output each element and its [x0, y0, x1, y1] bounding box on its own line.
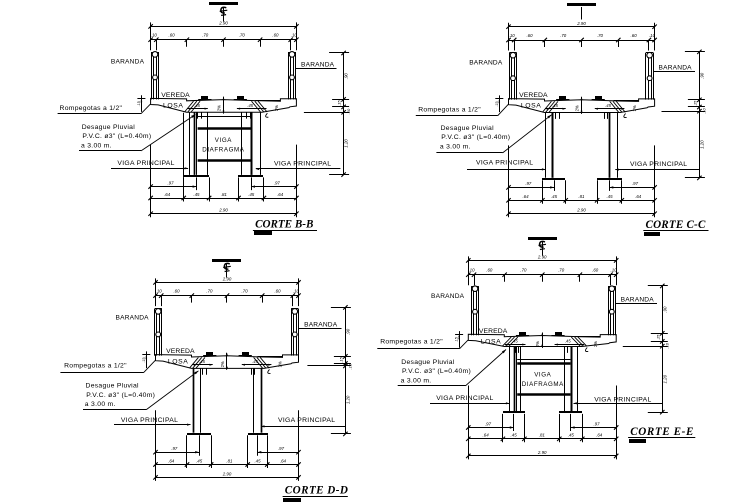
section B-B viga principal left web centerline — [194, 112, 196, 175]
svg-text:.64: .64 — [596, 433, 603, 438]
svg-text:VIGA PRINCIPAL: VIGA PRINCIPAL — [278, 417, 335, 424]
svg-text:a 3.00 m.: a 3.00 m. — [85, 401, 116, 408]
svg-text:Desague Pluvial: Desague Pluvial — [86, 383, 140, 390]
section E-E bottom overall dimension 2.90 — [468, 455, 616, 457]
section E-E bottom extension lines — [468, 386, 470, 460]
svg-text:2.90: 2.90 — [222, 277, 232, 282]
section D-D chain tick at deck top — [334, 356, 351, 358]
svg-text:2%: 2% — [216, 105, 221, 111]
section E-E right railing top rail circle — [609, 286, 615, 292]
section C-C drain pipe hatch right — [616, 101, 625, 112]
section D-D title scale bar — [283, 498, 301, 502]
section B-B right railing mid rail circle — [290, 75, 295, 80]
section D-D left railing mid rail circle — [156, 332, 161, 337]
section E-E left railing mid rail circle — [473, 309, 478, 314]
svg-text:.70: .70 — [202, 33, 209, 38]
svg-text:.15: .15 — [338, 356, 343, 362]
svg-text:BARANDA: BARANDA — [621, 297, 655, 304]
section B-B bottom extension lines — [150, 145, 152, 218]
section D-D bottom overall dimension 2.90 — [156, 477, 299, 479]
section E-E centerline bar — [528, 237, 557, 240]
section C-C viga principal right bottom flange — [597, 178, 622, 180]
section B-B chain tick at deck top — [332, 99, 349, 101]
section E-E drain cap right — [555, 332, 562, 335]
section B-B left railing top rail circle — [152, 52, 158, 58]
section D-D interior dimension .45 left — [192, 364, 213, 366]
svg-text:.64: .64 — [483, 433, 490, 438]
section E-E viga principal right web centerline — [571, 347, 573, 412]
section B-B centerline bar — [209, 2, 238, 5]
svg-text:.45: .45 — [254, 458, 261, 463]
svg-text:.10: .10 — [468, 268, 475, 273]
section B-B viga principal left bottom flange — [184, 175, 209, 177]
section C-C chain tick at deck top — [688, 99, 705, 101]
svg-text:.60: .60 — [274, 289, 281, 294]
svg-text:.97: .97 — [485, 421, 492, 426]
svg-text:.60: .60 — [592, 268, 599, 273]
section B-B bottom overall dimension 2.90 — [151, 213, 297, 215]
svg-text:.15: .15 — [655, 334, 660, 340]
section C-C dimension extension lines — [508, 23, 510, 51]
svg-text:.97: .97 — [274, 180, 281, 185]
svg-text:LOSA: LOSA — [481, 338, 502, 345]
svg-text:CORTE B-B: CORTE B-B — [255, 218, 313, 230]
svg-text:VIGA PRINCIPAL: VIGA PRINCIPAL — [594, 397, 651, 404]
section B-B chain tick top — [329, 52, 349, 54]
svg-text:Desague Pluvial: Desague Pluvial — [82, 124, 136, 131]
section C-C drain spout right — [604, 113, 606, 119]
svg-text:.45: .45 — [193, 192, 200, 197]
svg-text:.10: .10 — [346, 108, 351, 114]
svg-text:CORTE C-C: CORTE C-C — [646, 219, 706, 231]
svg-text:.97: .97 — [593, 421, 600, 426]
section B-B viga diafragma box — [198, 127, 252, 130]
section B-B chain tick at deck bottom — [304, 112, 349, 114]
section D-D bottom extension lines — [155, 410, 157, 481]
section C-C chain tick at deck bottom — [662, 111, 705, 113]
section E-E chain tick top — [648, 285, 668, 287]
svg-text:a 3.00 m.: a 3.00 m. — [401, 377, 432, 384]
section E-E drain pipe hatch right — [578, 337, 587, 346]
svg-text:.15: .15 — [137, 101, 141, 106]
section B-B viga principal left web — [189, 112, 191, 175]
svg-text:DIAFRAGMA: DIAFRAGMA — [202, 146, 244, 153]
svg-text:.45: .45 — [568, 433, 575, 438]
svg-text:.64: .64 — [522, 194, 529, 199]
svg-text:.45: .45 — [248, 192, 255, 197]
section E-E centerline CL symbol — [542, 241, 544, 256]
svg-text:1.20: 1.20 — [699, 140, 704, 149]
svg-text:.70: .70 — [558, 268, 565, 273]
section E-E viga principal left web centerline — [514, 347, 516, 412]
section B-B deck slab outline (losa + vereda) — [151, 98, 297, 112]
section B-B drain cap left — [201, 96, 208, 99]
section B-B right railing top rail circle — [289, 52, 295, 58]
section C-C dimension row .97 right — [610, 187, 655, 189]
svg-text:2.90: 2.90 — [537, 450, 547, 455]
section B-B viga diafragma top edge line — [198, 116, 252, 118]
section D-D drain cap left — [206, 352, 213, 355]
svg-text:P.V.C. ø3" (L=0.40m): P.V.C. ø3" (L=0.40m) — [441, 134, 510, 141]
svg-text:BARANDA: BARANDA — [301, 62, 335, 69]
section E-E viga principal right bottom flange — [559, 411, 582, 413]
section D-D viga principal right bottom flange — [248, 433, 268, 435]
section E-E right dimension chain line — [662, 286, 664, 412]
svg-text:a 3.00 m.: a 3.00 m. — [440, 143, 471, 150]
section B-B drain cap right — [237, 96, 244, 99]
section C-C left railing post — [509, 53, 511, 100]
section D-D viga principal left web — [193, 368, 195, 432]
svg-text:.70: .70 — [242, 289, 249, 294]
svg-text:Rompegotas a 1/2": Rompegotas a 1/2" — [380, 339, 443, 346]
section B-B left railing post — [151, 52, 153, 99]
svg-text:.45: .45 — [606, 194, 613, 199]
svg-text:2%: 2% — [593, 341, 598, 347]
svg-text:2%: 2% — [278, 361, 283, 367]
section B-B top dimension row .10/.60/.70/.70/.60/.10 — [151, 39, 297, 41]
section D-D left railing top rail circle — [155, 309, 161, 315]
section D-D viga principal right web — [253, 368, 255, 432]
section B-B right dimension chain line — [343, 53, 345, 175]
svg-text:Rompegotas a 1/2": Rompegotas a 1/2" — [418, 107, 481, 114]
svg-text:VIGA PRINCIPAL: VIGA PRINCIPAL — [476, 160, 533, 167]
svg-text:VEREDA: VEREDA — [166, 348, 195, 355]
section D-D drain pipe hatch left — [189, 357, 198, 368]
svg-text:.90: .90 — [699, 72, 704, 79]
section C-C centerline tick — [581, 7, 583, 20]
section C-C viga principal left bottom flange — [542, 178, 565, 180]
section E-E chain tick at deck bottom — [623, 346, 668, 348]
section B-B dimension row .97 left — [151, 186, 197, 188]
svg-text:2.90: 2.90 — [576, 21, 586, 26]
section D-D drain cap right — [242, 352, 249, 355]
svg-text:.15: .15 — [692, 100, 697, 106]
svg-text:.90: .90 — [345, 328, 350, 335]
section D-D drain spout right — [251, 368, 253, 374]
svg-text:P.V.C. ø3" (L=0.40m): P.V.C. ø3" (L=0.40m) — [402, 368, 471, 375]
section E-E viga principal left web — [509, 347, 511, 412]
section C-C dimension row .97 left — [509, 187, 555, 189]
section D-D centerline bar — [212, 259, 241, 262]
section C-C right railing post — [645, 53, 647, 100]
section C-C chain tick bottom — [685, 177, 705, 179]
svg-text:.70: .70 — [597, 33, 604, 38]
section B-B dimension extension lines — [150, 22, 152, 50]
svg-text:.64: .64 — [280, 458, 287, 463]
svg-text:LOSA: LOSA — [521, 103, 542, 110]
section C-C curb height dim .15 left — [499, 95, 501, 112]
svg-text:.97: .97 — [278, 446, 285, 451]
svg-text:VEREDA: VEREDA — [161, 92, 190, 99]
svg-text:.60: .60 — [526, 33, 533, 38]
section E-E right vereda hidden edge — [575, 336, 600, 338]
svg-text:.10: .10 — [348, 363, 353, 369]
svg-text:2%: 2% — [632, 105, 637, 111]
svg-text:2.90: 2.90 — [218, 21, 228, 26]
section C-C right railing mid rail circle — [647, 76, 652, 81]
section C-C left railing mid rail circle — [511, 76, 516, 81]
svg-text:VEREDA: VEREDA — [519, 92, 548, 99]
section E-E title scale bar — [629, 439, 646, 443]
section D-D right dimension chain line — [345, 307, 347, 434]
section B-B drain pipe hatch right — [258, 101, 267, 112]
svg-text:.81: .81 — [578, 194, 585, 199]
section E-E dimension extension lines — [468, 256, 470, 285]
section B-B title scale bar — [254, 231, 272, 235]
svg-text:.10: .10 — [665, 342, 670, 348]
svg-text:.60: .60 — [169, 33, 176, 38]
svg-text:.70: .70 — [560, 33, 567, 38]
section E-E interior dimension .45 left — [505, 344, 526, 346]
svg-text:DIAFRAGMA: DIAFRAGMA — [522, 381, 564, 388]
section E-E chain tick bottom — [648, 412, 668, 414]
section D-D dimension row .64/.45/.81/.45/.64 — [156, 464, 299, 466]
svg-text:.10: .10 — [702, 108, 707, 114]
section C-C drain cap right — [595, 96, 602, 99]
svg-text:1.20: 1.20 — [662, 374, 667, 383]
section C-C centerline bar — [567, 3, 596, 6]
section E-E curb height dim .15 left — [459, 331, 461, 348]
svg-text:.64: .64 — [277, 192, 284, 197]
svg-text:.45: .45 — [605, 103, 611, 108]
svg-text:.45: .45 — [196, 458, 203, 463]
section B-B deck centerline with arrows — [223, 97, 225, 114]
section C-C bottom overall dimension 2.90 — [509, 213, 655, 215]
svg-text:2.90: 2.90 — [218, 208, 228, 213]
svg-text:.97: .97 — [171, 446, 178, 451]
section E-E right railing mid rail circle — [609, 309, 614, 314]
svg-text:.10: .10 — [156, 289, 163, 294]
section E-E left railing top rail circle — [472, 286, 478, 292]
svg-text:.10: .10 — [509, 33, 516, 38]
svg-text:BARANDA: BARANDA — [469, 60, 503, 67]
section D-D deck centerline with arrows — [226, 353, 228, 370]
section E-E top dimension row .10/.60/.70/.70/.60/.10 — [468, 274, 616, 276]
section E-E interior dimension .45 right — [555, 344, 585, 346]
svg-text:.64: .64 — [164, 192, 171, 197]
section B-B drain spout right — [246, 112, 248, 118]
svg-text:VEREDA: VEREDA — [479, 328, 508, 335]
svg-text:a 3.00 m.: a 3.00 m. — [81, 142, 112, 149]
section E-E viga principal right web — [564, 347, 566, 412]
section C-C drain spout left — [555, 113, 557, 119]
svg-text:.15: .15 — [495, 101, 499, 106]
section D-D dimension row .97 right — [258, 452, 299, 454]
section C-C viga principal right web — [609, 113, 611, 178]
section C-C right vereda hidden edge — [614, 100, 639, 102]
section C-C top dimension row .10/.60/.70/.70/.60/.10 — [509, 40, 655, 42]
svg-text:LOSA: LOSA — [168, 359, 189, 366]
section C-C drain pipe hatch left — [542, 101, 551, 112]
svg-text:Rompegotas a 1/2": Rompegotas a 1/2" — [64, 362, 127, 369]
svg-text:LOSA: LOSA — [163, 102, 184, 109]
svg-text:P.V.C. ø3" (L=0.40m): P.V.C. ø3" (L=0.40m) — [86, 392, 155, 399]
section B-B viga principal right bottom flange — [238, 175, 263, 177]
section C-C deck centerline with arrows — [581, 97, 583, 114]
section D-D curb height dim .15 left — [146, 351, 148, 368]
section B-B chain tick bottom — [329, 174, 349, 176]
svg-text:Desague Pluvial: Desague Pluvial — [441, 125, 495, 132]
section D-D chain tick bottom — [331, 433, 351, 435]
section B-B drain spout left — [197, 112, 199, 118]
section C-C dimension row .64/.45/.81/.45/.64 — [509, 200, 655, 202]
section D-D viga principal left bottom flange — [187, 433, 211, 435]
svg-text:1.20: 1.20 — [345, 395, 350, 404]
section E-E left railing post — [471, 286, 473, 335]
svg-text:VIGA PRINCIPAL: VIGA PRINCIPAL — [630, 161, 687, 168]
section B-B right vereda hidden edge — [255, 100, 280, 102]
section B-B dimension row .64/.45/.81/.45/.64 — [151, 198, 297, 200]
section E-E dimension row .97 left — [468, 427, 513, 429]
section E-E deck slab outline (losa + vereda) — [468, 334, 616, 346]
svg-text:VIGA PRINCIPAL: VIGA PRINCIPAL — [117, 160, 174, 167]
svg-text:P.V.C. ø3" (L=0.40m): P.V.C. ø3" (L=0.40m) — [82, 133, 151, 140]
svg-text:Desague Pluvial: Desague Pluvial — [401, 359, 455, 366]
svg-text:2.90: 2.90 — [222, 471, 232, 476]
svg-text:CORTE D-D: CORTE D-D — [285, 485, 349, 497]
section C-C chain tick at slab — [688, 106, 705, 108]
svg-text:2%: 2% — [535, 341, 540, 347]
svg-text:2%: 2% — [574, 105, 579, 111]
section D-D chain tick at deck bottom — [307, 365, 351, 367]
svg-text:.81: .81 — [226, 458, 233, 463]
svg-text:.70: .70 — [206, 289, 213, 294]
svg-text:2.90: 2.90 — [576, 208, 586, 213]
section B-B drain pipe hatch left — [185, 101, 194, 112]
section D-D deck slab outline (losa + vereda) — [156, 355, 299, 369]
section B-B centerline CL symbol — [223, 7, 225, 22]
svg-text:.45: .45 — [511, 433, 518, 438]
section E-E viga diafragma top edge line — [517, 359, 570, 361]
section B-B interior dimension .45 right — [237, 108, 267, 110]
section C-C interior dimension .45 left — [545, 108, 566, 110]
svg-text:2.90: 2.90 — [537, 255, 547, 260]
section D-D drain spout left — [202, 368, 204, 374]
svg-text:VIGA PRINCIPAL: VIGA PRINCIPAL — [274, 161, 331, 168]
svg-text:.81: .81 — [221, 192, 228, 197]
svg-text:.97: .97 — [632, 181, 639, 186]
svg-text:1.20: 1.20 — [344, 139, 349, 148]
svg-text:.60: .60 — [272, 33, 279, 38]
svg-text:.45: .45 — [565, 339, 571, 344]
section D-D right railing mid rail circle — [292, 332, 297, 337]
section C-C left railing top rail circle — [510, 52, 516, 58]
section D-D top dimension row .10/.60/.70/.70/.60/.10 — [156, 295, 299, 297]
section B-B interior dimension .45 left — [187, 108, 208, 110]
section E-E viga principal left bottom flange — [503, 411, 525, 413]
section C-C viga principal left web — [545, 113, 547, 178]
section D-D dimension row .97 left — [156, 452, 200, 454]
svg-text:.15: .15 — [337, 100, 342, 106]
svg-text:.60: .60 — [486, 268, 493, 273]
svg-text:2%: 2% — [220, 361, 225, 367]
section C-C bottom extension lines — [508, 145, 510, 217]
svg-text:.81: .81 — [539, 433, 546, 438]
section C-C right railing top rail circle — [647, 52, 653, 58]
section C-C drain cap left — [559, 96, 566, 99]
svg-text:VIGA PRINCIPAL: VIGA PRINCIPAL — [436, 395, 493, 402]
svg-text:.15: .15 — [455, 337, 459, 342]
svg-text:BARANDA: BARANDA — [659, 65, 693, 72]
svg-text:BARANDA: BARANDA — [304, 321, 338, 328]
section D-D interior dimension .45 right — [242, 364, 272, 366]
section D-D dimension extension lines — [155, 278, 157, 306]
section D-D centerline CL symbol — [226, 263, 228, 278]
section E-E right railing post — [608, 286, 610, 335]
section D-D drain pipe hatch right — [260, 357, 269, 368]
svg-text:.45: .45 — [551, 194, 558, 199]
section C-C interior dimension .45 right — [595, 108, 625, 110]
section D-D chain tick at slab — [334, 363, 351, 365]
svg-text:.97: .97 — [525, 181, 532, 186]
section E-E deck centerline with arrows — [542, 333, 544, 348]
section B-B viga principal right web centerline — [251, 112, 253, 175]
section E-E drain spout left — [515, 347, 517, 353]
svg-text:.70: .70 — [520, 268, 527, 273]
svg-text:.60: .60 — [631, 33, 638, 38]
section D-D right railing post — [291, 309, 293, 356]
svg-text:BARANDA: BARANDA — [111, 58, 145, 65]
svg-text:.97: .97 — [167, 180, 174, 185]
section D-D left railing post — [154, 309, 156, 356]
section C-C chain tick top — [685, 51, 705, 53]
svg-text:Rompegotas a 1/2": Rompegotas a 1/2" — [60, 105, 123, 112]
section D-D right vereda hidden edge — [258, 356, 283, 358]
section C-C deck slab outline (losa + vereda) — [509, 99, 655, 113]
svg-text:.64: .64 — [168, 458, 175, 463]
section B-B curb height dim .15 left — [141, 95, 143, 112]
section B-B right railing post — [288, 52, 290, 99]
section B-B dimension row .97 right — [251, 186, 296, 188]
svg-text:.10: .10 — [151, 33, 158, 38]
svg-text:.70: .70 — [239, 33, 246, 38]
section E-E chain tick at deck top — [651, 333, 668, 335]
section C-C title scale bar — [644, 232, 660, 236]
svg-text:.15: .15 — [142, 357, 146, 362]
section E-E viga diafragma box — [517, 362, 570, 365]
section E-E drain spout right — [564, 347, 566, 353]
section B-B viga principal right web — [241, 112, 243, 175]
section B-B chain tick at slab — [332, 106, 349, 108]
svg-text:VIGA: VIGA — [215, 137, 232, 144]
svg-text:.64: .64 — [635, 194, 642, 199]
section E-E drain pipe hatch left — [502, 337, 511, 346]
svg-text:BARANDA: BARANDA — [116, 315, 150, 322]
section D-D right railing top rail circle — [292, 309, 298, 315]
svg-text:CORTE E-E: CORTE E-E — [630, 426, 694, 438]
svg-text:.90: .90 — [344, 73, 349, 80]
svg-text:.60: .60 — [173, 289, 180, 294]
section B-B left railing mid rail circle — [153, 75, 158, 80]
section E-E chain tick at slab — [651, 341, 668, 343]
svg-text:BARANDA: BARANDA — [431, 293, 465, 300]
svg-text:.45: .45 — [247, 103, 253, 108]
svg-text:VIGA: VIGA — [534, 371, 551, 378]
svg-text:.90: .90 — [662, 306, 667, 313]
section E-E drain cap left — [519, 332, 526, 335]
section C-C right dimension chain line — [699, 52, 701, 178]
section E-E dimension row .64/.45/.81/.45/.64 — [468, 438, 616, 440]
section E-E dimension row .97 right — [571, 427, 616, 429]
svg-text:2%: 2% — [274, 105, 279, 111]
section D-D chain tick top — [331, 307, 351, 309]
svg-text:VIGA PRINCIPAL: VIGA PRINCIPAL — [121, 417, 178, 424]
